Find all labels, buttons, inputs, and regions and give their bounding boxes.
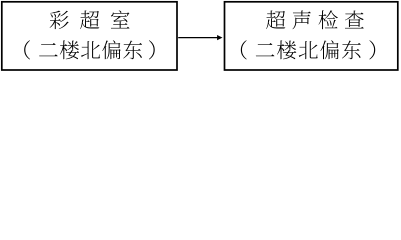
text glyph 声 [292, 10, 310, 29]
text glyph 北 [81, 41, 100, 59]
text glyph 彩 [50, 11, 69, 29]
arrowhead [217, 35, 222, 40]
text glyph 北 [299, 41, 318, 59]
text glyph 超 [80, 10, 99, 29]
text glyph 超 [266, 10, 285, 29]
text glyph ） [369, 40, 375, 59]
text glyph 偏 [102, 40, 121, 59]
text glyph 二 [256, 43, 275, 56]
text glyph 楼 [60, 40, 79, 59]
text glyph 东 [342, 41, 361, 60]
text glyph （ [241, 40, 247, 59]
wire: arrow shaft [178, 37, 217, 39]
text glyph 二 [39, 43, 58, 56]
text glyph 楼 [277, 40, 296, 59]
box: 超声检查（二楼北偏东） [225, 2, 398, 70]
text glyph 检 [319, 10, 338, 29]
box: 彩超室（二楼北偏东） [2, 2, 177, 70]
text glyph （ [24, 40, 30, 59]
text glyph 东 [123, 41, 142, 60]
text glyph 室 [111, 10, 130, 28]
text glyph ） [149, 40, 155, 59]
text glyph 查 [345, 11, 364, 29]
text glyph 偏 [320, 40, 339, 59]
